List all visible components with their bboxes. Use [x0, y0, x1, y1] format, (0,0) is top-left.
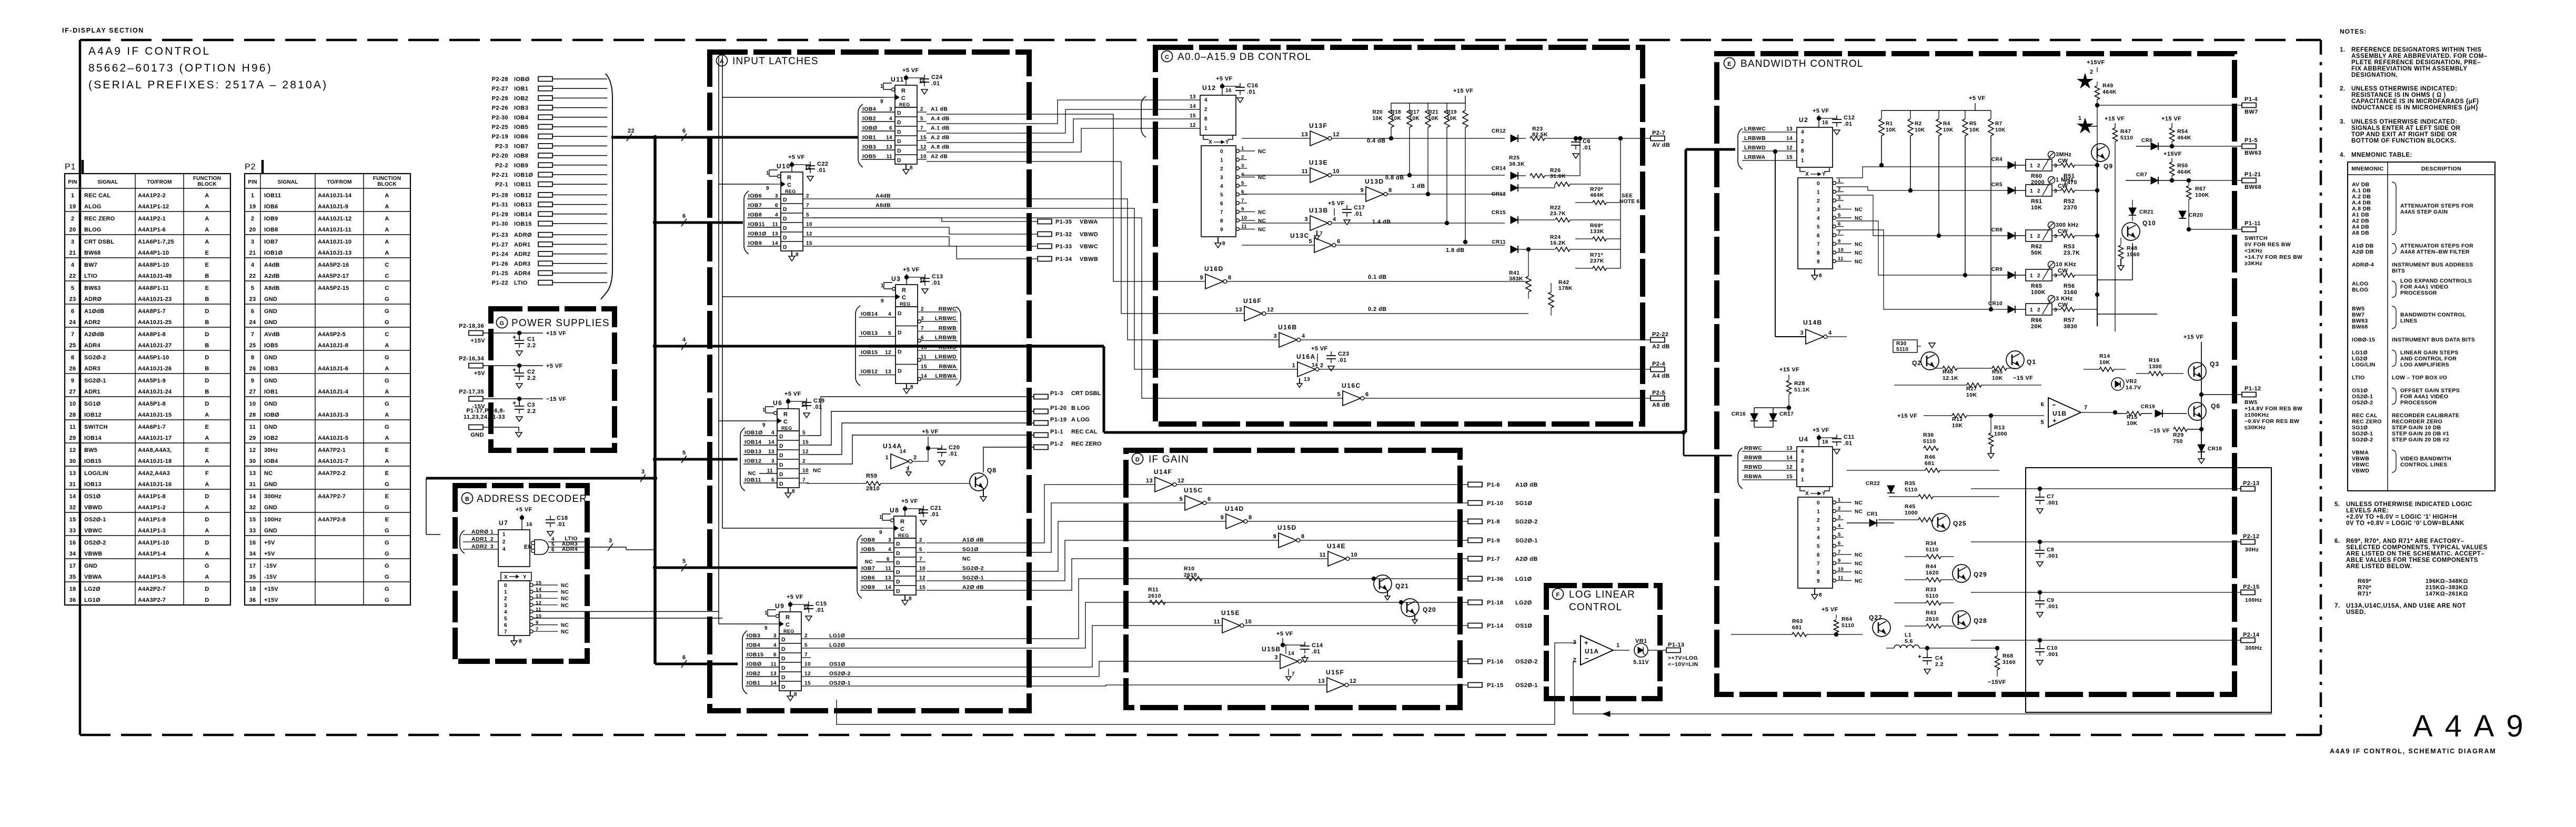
svg-text:14: 14	[69, 493, 76, 500]
svg-text:1: 1	[766, 170, 769, 176]
svg-text:750: 750	[2173, 438, 2183, 445]
svg-text:CR16: CR16	[1732, 411, 1746, 417]
svg-text:12: 12	[920, 145, 927, 150]
svg-text:A4A10J1-26: A4A10J1-26	[138, 366, 172, 372]
latch U6 input pins	[740, 428, 777, 491]
svg-text:CAPACITANCE IS IN MICROFARADS: CAPACITANCE IS IN MICROFARADS {μF}	[2351, 98, 2479, 105]
svg-text:R21: R21	[1428, 109, 1438, 115]
svg-text:IOB14: IOB14	[84, 435, 102, 441]
trimmer R66 20K / resistor R57 3830	[2026, 296, 2097, 330]
svg-text:D: D	[896, 550, 900, 557]
diode CR9	[1991, 267, 2026, 279]
svg-text:8: 8	[1204, 116, 1207, 122]
svg-text:REG: REG	[898, 533, 909, 538]
connector pin P1-31 IOB13	[492, 202, 607, 208]
svg-text:R66: R66	[2031, 317, 2042, 324]
svg-text:FIX ABBREVIATION WITH ASSEMBLY: FIX ABBREVIATION WITH ASSEMBLY	[2351, 66, 2468, 72]
sheet subtitle	[2330, 748, 2497, 755]
svg-text:IOB8: IOB8	[748, 212, 762, 218]
decoder U12	[1141, 76, 1240, 137]
svg-text:>+7V=LOG: >+7V=LOG	[1668, 655, 1698, 661]
svg-text:P1-35: P1-35	[1055, 219, 1072, 225]
resistor R4 10K	[1936, 110, 1954, 238]
svg-text:6: 6	[251, 308, 254, 315]
svg-text:A4dB: A4dB	[264, 262, 280, 268]
svg-text:3: 3	[490, 544, 494, 550]
svg-text:10: 10	[69, 401, 76, 407]
svg-text:C7: C7	[2047, 493, 2054, 500]
svg-text:NOTE 6: NOTE 6	[1619, 199, 1640, 205]
svg-text:IF-DISPLAY SECTION: IF-DISPLAY SECTION	[62, 27, 144, 34]
svg-text:IOB5: IOB5	[861, 547, 875, 553]
svg-text:NC: NC	[1855, 250, 1863, 256]
svg-text:NC: NC	[561, 603, 569, 609]
resistor R59 2810	[807, 473, 970, 492]
svg-text:3: 3	[771, 459, 774, 465]
connector stub P1-1 REC CAL	[1034, 429, 1098, 438]
svg-text:SG1Ø: SG1Ø	[962, 547, 979, 553]
svg-text:P2-16,34: P2-16,34	[459, 356, 484, 362]
svg-text:A4A1P1-3: A4A1P1-3	[138, 528, 166, 534]
svg-text:P1-12: P1-12	[2245, 386, 2261, 392]
svg-text:NC: NC	[813, 468, 821, 474]
svg-text:10K: 10K	[1995, 127, 2006, 133]
svg-text:REG: REG	[781, 426, 792, 431]
svg-text:ADDRESS DECODER: ADDRESS DECODER	[477, 493, 587, 505]
svg-text:11: 11	[771, 662, 777, 668]
svg-text:3160: 3160	[2064, 289, 2077, 296]
resistor R16 1300	[2136, 357, 2183, 376]
svg-text:G: G	[385, 401, 389, 407]
svg-text:C24: C24	[931, 74, 943, 80]
svg-text:U13C: U13C	[1290, 232, 1310, 239]
svg-text:3: 3	[2054, 307, 2057, 313]
svg-text:15: 15	[806, 241, 812, 247]
svg-text:D: D	[205, 597, 209, 603]
power input P2-18,36 +15V	[459, 323, 566, 344]
svg-text:15: 15	[802, 440, 809, 446]
mnemonic table	[2348, 162, 2495, 491]
connector stub P1-34 VBWB	[1038, 256, 1098, 263]
resistor R28 51.1K	[1787, 380, 1810, 416]
svg-text:A0.0–A15.9 DB CONTROL: A0.0–A15.9 DB CONTROL	[1178, 52, 1311, 63]
svg-text:BITS: BITS	[2392, 268, 2405, 274]
svg-text:1: 1	[2030, 188, 2033, 194]
svg-text:.01: .01	[557, 521, 566, 528]
svg-text:D: D	[896, 560, 900, 566]
svg-text:SG2Ø-2: SG2Ø-2	[2352, 437, 2373, 443]
svg-text:RECORDER CALIBRATE: RECORDER CALIBRATE	[2392, 412, 2459, 419]
svg-text:≤30KHz: ≤30KHz	[2245, 425, 2266, 431]
svg-text:IOB5: IOB5	[264, 342, 278, 349]
svg-text:P1-19: P1-19	[1050, 417, 1066, 423]
wire CR10 row continuation	[2097, 314, 2157, 315]
svg-text:R7: R7	[1995, 121, 2003, 127]
svg-text:3: 3	[888, 538, 891, 543]
svg-text:G: G	[385, 528, 389, 534]
power +15VF top	[2087, 59, 2105, 72]
svg-text:12: 12	[1267, 307, 1274, 313]
capacitor C14 .01	[1300, 642, 1323, 662]
svg-text:C: C	[385, 285, 389, 291]
svg-text:LTIO: LTIO	[84, 273, 97, 279]
svg-text:ATTENUATOR STEPS FOR: ATTENUATOR STEPS FOR	[2400, 243, 2473, 249]
svg-text:R52: R52	[2064, 198, 2075, 205]
inverter U14F	[1146, 468, 1184, 492]
svg-text:IOBØ: IOBØ	[862, 125, 877, 132]
svg-text:A: A	[205, 551, 209, 557]
svg-text:A4A2,A4A3: A4A2,A4A3	[138, 470, 170, 477]
svg-text:R30: R30	[1896, 341, 1907, 347]
svg-text:LRBWA: LRBWA	[1744, 154, 1766, 160]
latch U11 input pins	[858, 104, 895, 167]
svg-text:1000: 1000	[1994, 431, 2007, 437]
svg-text:7: 7	[1838, 230, 1841, 236]
svg-text:7: 7	[1838, 549, 1841, 555]
svg-text:A4 DB: A4 DB	[2352, 224, 2369, 230]
svg-text:1: 1	[2030, 234, 2033, 239]
svg-text:GND: GND	[264, 481, 277, 488]
svg-text:28: 28	[249, 412, 256, 418]
connector pin P2-21 IOB1Ø	[492, 172, 607, 178]
svg-text:15: 15	[249, 517, 256, 523]
diode CR11	[1492, 239, 1555, 253]
svg-text:5110: 5110	[1926, 547, 1938, 553]
svg-text:1: 1	[1204, 126, 1207, 132]
trimmer R62 50K / resistor R53 23.7K	[2026, 222, 2097, 257]
note 1	[2340, 47, 2488, 78]
wire Q9 emitter chain	[2095, 162, 2099, 326]
inverter U14B	[1800, 319, 1847, 344]
inverter U16A	[1292, 353, 1323, 377]
svg-text:R: R	[902, 287, 906, 294]
video filter thin box	[2026, 468, 2271, 712]
svg-text:P2-28: P2-28	[492, 76, 508, 83]
svg-text:IOB4: IOB4	[747, 642, 760, 649]
svg-text:U11: U11	[891, 76, 904, 83]
svg-text:P1-32: P1-32	[1055, 231, 1072, 238]
svg-text:OS1Ø: OS1Ø	[2352, 388, 2368, 394]
svg-text:IOB13: IOB13	[744, 449, 761, 455]
svg-text:LRBWA: LRBWA	[935, 373, 957, 379]
svg-text:C20: C20	[949, 445, 960, 451]
svg-text:0.4 dB: 0.4 dB	[1367, 138, 1385, 144]
connector pin P1-28 IOB12	[492, 192, 607, 198]
svg-text:A4A8P1-7: A4A8P1-7	[138, 308, 166, 315]
svg-text:C12: C12	[1844, 115, 1855, 121]
svg-text:ADR2: ADR2	[84, 319, 100, 326]
svg-text:.01: .01	[1338, 357, 1347, 364]
svg-text:−0.6V FOR RES BW: −0.6V FOR RES BW	[2245, 418, 2299, 425]
svg-text:9: 9	[1817, 259, 1820, 265]
decoder U4 output matrix	[1798, 487, 1863, 599]
svg-text:G: G	[385, 586, 389, 592]
svg-text:R35: R35	[1905, 480, 1915, 487]
wire U12 to U13E	[1242, 175, 1310, 176]
svg-text:12: 12	[804, 671, 811, 677]
svg-text:A: A	[205, 227, 209, 233]
svg-text:+5 VF: +5 VF	[1328, 200, 1345, 207]
svg-text:Q25: Q25	[1953, 520, 1967, 527]
svg-text:OS2Ø-1: OS2Ø-1	[829, 680, 851, 687]
connector stub P1-20 B LOG	[1034, 405, 1090, 414]
svg-text:2: 2	[1817, 198, 1820, 204]
wire to P2-13	[1971, 488, 2241, 489]
svg-text:1: 1	[880, 84, 883, 89]
svg-text:+15 VF: +15 VF	[2105, 116, 2125, 122]
svg-text:6: 6	[773, 652, 777, 658]
svg-text:R36: R36	[1923, 432, 1934, 438]
resistor R45 1000	[1878, 503, 1933, 522]
svg-text:23.7K: 23.7K	[2064, 250, 2080, 256]
svg-text:LG2Ø: LG2Ø	[84, 586, 100, 592]
svg-text:U16B: U16B	[1278, 324, 1297, 331]
svg-text:IOB3: IOB3	[862, 144, 876, 150]
svg-text:P2-19: P2-19	[492, 134, 508, 140]
svg-text:196KΩ–348KΩ: 196KΩ–348KΩ	[2426, 578, 2468, 584]
svg-text:11,23,24,31-33: 11,23,24,31-33	[464, 414, 505, 420]
svg-text:PLETE REFERENCE DESIGNATION, P: PLETE REFERENCE DESIGNATION, PRE–	[2351, 59, 2481, 66]
svg-text:0.2 dB: 0.2 dB	[1368, 306, 1386, 312]
svg-text:R47: R47	[2120, 128, 2131, 135]
svg-text:U13D: U13D	[1365, 178, 1384, 185]
function block B ADDRESS DECODER border	[455, 486, 587, 661]
wire OS2Ø-1 row	[811, 685, 1468, 686]
svg-text:6: 6	[1817, 233, 1820, 239]
svg-text:G: G	[385, 319, 389, 326]
bus branch 5 to U8	[653, 558, 858, 571]
svg-text:GND: GND	[264, 378, 277, 384]
svg-text:100K: 100K	[2031, 289, 2046, 296]
svg-text:27: 27	[69, 389, 76, 395]
svg-text:4: 4	[888, 547, 891, 553]
decoder U7 output matrix	[498, 572, 722, 646]
svg-text:RBWC: RBWC	[1744, 445, 1762, 451]
connector stub P1-10 SG1Ø	[1468, 500, 1532, 507]
capacitor C8 .001	[2035, 540, 2058, 567]
svg-text:CONTROL: CONTROL	[1569, 602, 1622, 613]
latch U9 cells	[779, 634, 801, 701]
svg-text:D: D	[779, 452, 783, 459]
connector stub P2-22 A2 dB	[1651, 331, 1670, 350]
svg-text:A: A	[205, 458, 209, 465]
svg-text:R: R	[783, 411, 788, 418]
svg-text:IOB12: IOB12	[514, 192, 532, 198]
svg-text:D: D	[779, 433, 783, 440]
capacitor C12 .01	[1832, 115, 1855, 135]
svg-text:LOG EXPAND CONTROLS: LOG EXPAND CONTROLS	[2400, 278, 2472, 284]
svg-text:A4A10J1-10: A4A10J1-10	[318, 239, 351, 245]
resistor R7 10K	[1988, 110, 2006, 311]
svg-text:B: B	[465, 496, 469, 502]
svg-text:P1-25: P1-25	[492, 270, 508, 277]
connector stub P1-4 BW7	[2242, 96, 2258, 115]
svg-text:.01: .01	[932, 280, 941, 286]
diode CR19	[2141, 404, 2187, 417]
svg-text:IOB15: IOB15	[861, 349, 878, 356]
svg-text:B: B	[205, 296, 209, 302]
svg-text:Q27: Q27	[1869, 614, 1883, 621]
connector stub P1-15 OS2Ø-1	[1468, 682, 1538, 689]
svg-text:8: 8	[910, 385, 913, 390]
wire U10 to P1-33	[812, 237, 1038, 246]
svg-text:A4A10J1-14: A4A10J1-14	[318, 193, 352, 199]
svg-text:C: C	[1165, 54, 1169, 60]
note 7	[2334, 603, 2466, 616]
diode CR5	[1991, 182, 2026, 194]
svg-text:LG2Ø: LG2Ø	[829, 642, 845, 649]
svg-text:CR21: CR21	[2139, 209, 2154, 215]
bus branch 6 to U9	[655, 654, 738, 668]
power -15VF	[1988, 679, 2006, 685]
svg-text:A4A1P1-12: A4A1P1-12	[138, 204, 169, 210]
svg-text:A4A1P2-1: A4A1P2-1	[138, 216, 166, 222]
svg-text:AND CONTROL FOR: AND CONTROL FOR	[2400, 356, 2457, 362]
svg-text:LINES: LINES	[2400, 318, 2417, 324]
svg-text:1: 1	[1241, 146, 1244, 152]
svg-text:1: 1	[1838, 497, 1841, 503]
svg-text:NC: NC	[1258, 227, 1266, 233]
wire U14A output	[912, 452, 928, 461]
svg-text:NC: NC	[1855, 259, 1863, 265]
svg-text:CR1: CR1	[1867, 511, 1878, 517]
svg-text:P1-5: P1-5	[2245, 137, 2258, 144]
svg-text:D: D	[205, 540, 209, 546]
svg-text:2610: 2610	[1148, 593, 1161, 599]
svg-text:5110: 5110	[1896, 347, 1908, 352]
diode CR4	[1991, 157, 2026, 169]
svg-text:5: 5	[504, 616, 507, 622]
svg-text:25: 25	[69, 342, 76, 349]
power +15 VF for R54	[2161, 116, 2181, 128]
block B title	[462, 493, 588, 505]
svg-text:+15V: +15V	[470, 338, 485, 344]
wire U10 to P1-32	[812, 227, 1038, 234]
svg-text:1: 1	[1616, 642, 1620, 649]
connector pin P2-20 IOB8	[492, 153, 607, 159]
svg-text:TO/FROM: TO/FROM	[327, 179, 351, 185]
svg-text:R: R	[787, 175, 791, 181]
svg-text:ASSEMBLY ARE ABBREVIATED. FOR: ASSEMBLY ARE ABBREVIATED. FOR COM–	[2351, 53, 2488, 59]
svg-text:215KΩ–383KΩ: 215KΩ–383KΩ	[2426, 584, 2468, 591]
svg-text:A.1 DB: A.1 DB	[2352, 188, 2371, 194]
svg-text:12: 12	[1786, 145, 1793, 151]
svg-text:Y: Y	[1225, 139, 1229, 145]
svg-text:SG2Ø-1: SG2Ø-1	[84, 378, 106, 384]
resistor R63 681	[1731, 618, 1863, 637]
svg-text:D: D	[783, 216, 787, 222]
diode CR20	[2179, 211, 2203, 218]
inverter U15B	[1262, 646, 1306, 681]
svg-text:IOB1: IOB1	[862, 135, 876, 141]
svg-text:FUNCTION: FUNCTION	[373, 176, 401, 181]
block F title	[1553, 589, 1636, 613]
svg-text:G: G	[385, 563, 389, 569]
svg-text:1000: 1000	[1905, 510, 1918, 516]
svg-text:22: 22	[69, 273, 76, 279]
latch U11 output pins	[917, 106, 950, 160]
svg-text:A.8 DB: A.8 DB	[2352, 206, 2371, 212]
svg-text:1: 1	[2078, 115, 2082, 122]
resistor R54 464K	[2170, 128, 2191, 148]
svg-text:IOB1Ø: IOB1Ø	[744, 430, 763, 436]
connector pin P2-3 IOB7	[495, 143, 607, 149]
svg-text:CR9: CR9	[1991, 267, 2003, 273]
diode CR7	[2126, 172, 2191, 184]
svg-text:7: 7	[1817, 242, 1820, 248]
svg-text:R43: R43	[1926, 610, 1936, 616]
svg-text:5: 5	[920, 116, 923, 122]
svg-text:LG2Ø: LG2Ø	[2352, 356, 2368, 362]
svg-text:A.4 DB: A.4 DB	[2352, 200, 2371, 206]
svg-text:1 MHz: 1 MHz	[2056, 177, 2074, 183]
svg-text:NC: NC	[748, 471, 756, 477]
connector stub P1-7 A2Ø dB	[1468, 556, 1538, 562]
connector pin P1-25 ADR4	[492, 270, 607, 277]
resistor R14 10K	[2084, 353, 2126, 371]
capacitor C13 .01	[920, 274, 943, 294]
inverter U15F	[1318, 669, 1356, 692]
connector pin P2-25 IOB5	[492, 124, 607, 130]
svg-text:ALOG: ALOG	[84, 204, 102, 210]
svg-text:6: 6	[889, 126, 892, 132]
svg-text:R57: R57	[2064, 317, 2075, 324]
factory select star 1	[2078, 115, 2097, 133]
svg-text:P1-2: P1-2	[1050, 441, 1063, 447]
power -15 VF for R55	[2013, 375, 2033, 381]
latch U6	[762, 391, 808, 431]
svg-text:D: D	[896, 569, 900, 576]
trimmer R65 100K / resistor R56 3160	[2026, 261, 2097, 296]
svg-text:+15 VF: +15 VF	[546, 330, 566, 337]
svg-text:11: 11	[772, 222, 778, 228]
svg-text:2: 2	[490, 537, 494, 542]
svg-text:P1-6: P1-6	[1487, 482, 1500, 488]
svg-text:X: X	[1805, 172, 1809, 177]
svg-text:LRBWC: LRBWC	[1744, 126, 1766, 132]
svg-text:13: 13	[1235, 307, 1242, 313]
svg-text:8: 8	[909, 596, 912, 602]
trimmer R60 2000 / resistor R51 1470	[2026, 152, 2097, 186]
note 3	[2340, 119, 2461, 144]
wire gate input riser 4	[812, 218, 1343, 398]
svg-text:9: 9	[881, 298, 884, 304]
svg-text:7: 7	[1320, 231, 1323, 237]
connector stub P1-5 BW63	[2242, 137, 2261, 156]
svg-text:464K: 464K	[2102, 89, 2117, 95]
wire to P1-12	[2199, 392, 2242, 397]
diode CR17	[1769, 408, 1794, 427]
resistor R5 10K	[1963, 110, 1980, 277]
svg-text:P2-22: P2-22	[1652, 331, 1668, 338]
svg-text:−: −	[1585, 654, 1589, 662]
power +5 VF for U15B	[1276, 631, 1305, 654]
connector stub P2-15 100Hz	[2241, 584, 2262, 603]
svg-text:.001: .001	[2047, 500, 2058, 506]
svg-text:NC: NC	[962, 556, 971, 562]
svg-text:1: 1	[1801, 477, 1804, 483]
svg-text:GND: GND	[264, 296, 277, 302]
svg-text:E: E	[205, 285, 209, 291]
svg-text:10K: 10K	[1943, 127, 1954, 133]
svg-text:12: 12	[1190, 123, 1196, 128]
svg-text:C: C	[902, 295, 906, 301]
svg-text:8: 8	[1817, 570, 1820, 576]
svg-text:R13: R13	[1994, 425, 2005, 431]
svg-text:14: 14	[1786, 455, 1793, 461]
svg-text:1960: 1960	[2127, 251, 2140, 258]
svg-text:10: 10	[1838, 567, 1844, 572]
